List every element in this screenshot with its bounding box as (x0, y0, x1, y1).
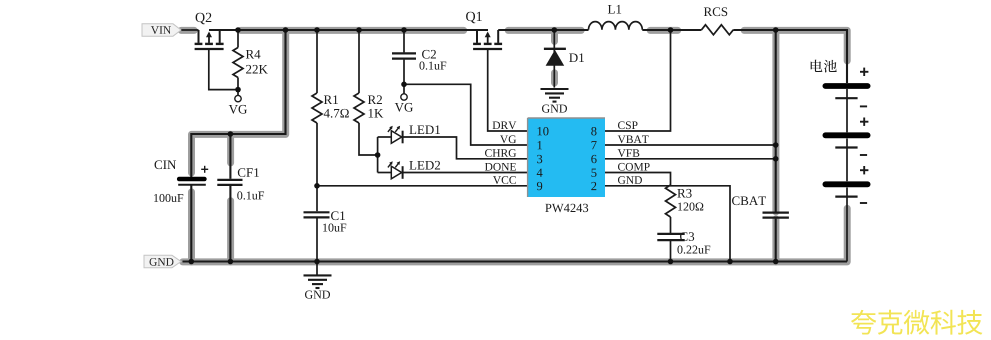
wire CSP pin 8 to switch node (605, 30, 671, 131)
polarity + CIN (201, 166, 208, 173)
pin 7 VBAT (618, 135, 649, 143)
VBAT column black (775, 30, 777, 212)
resistor R3 (666, 185, 676, 233)
battery polarity marks (860, 68, 869, 203)
wire LED2 cathode to DONE pin 4 (403, 172, 528, 174)
label CIN (155, 160, 177, 169)
wire VG net C2 to pin 1 (404, 84, 528, 145)
battery cells (825, 86, 867, 197)
wire to LED2 anode (378, 172, 392, 174)
wire RCS to battery + (733, 30, 847, 83)
label VG (C2) (395, 103, 413, 112)
LED LED2 (388, 161, 403, 179)
label CBAT (732, 196, 766, 205)
label L1 (608, 5, 621, 14)
capacitor CBAT plates (763, 213, 789, 218)
diode D1 (544, 49, 566, 66)
wire highlight: GND rail + battery bottom (183, 208, 848, 262)
pin stub to VG terminal C2 (403, 84, 405, 93)
capacitor C3 leads (670, 240, 672, 261)
LED LED1 (388, 126, 403, 144)
label LED2 (409, 161, 440, 170)
resistor R1 (312, 30, 322, 186)
label R4 (246, 50, 261, 59)
pin 6 VFB (618, 149, 640, 157)
label R3 (677, 189, 691, 198)
wire LED anode column (377, 137, 379, 173)
wire to LED1 anode (378, 136, 392, 138)
label C2 (422, 50, 436, 59)
capacitor CF1 plates (217, 180, 242, 185)
label CF1 (238, 168, 259, 177)
transistor Q2 (195, 30, 224, 49)
label VG (Q2) (229, 105, 247, 114)
label C3 (680, 232, 694, 241)
wire D1 column (553, 30, 555, 88)
wire highlight: VBAT column / CBAT (772, 30, 779, 212)
wire COMP pin 5 to R3 (605, 173, 671, 186)
wire highlight: RCS to battery + (744, 30, 847, 61)
value 1K (369, 109, 384, 118)
pin stub to VG terminal Q2 (237, 90, 239, 96)
value 0.1uF C2 (419, 62, 446, 70)
wire highlight: switch node Q1-L1 (508, 27, 581, 34)
wire GND pin 2 to ground rail (605, 186, 730, 262)
wire VBAT pin 7 to battery + (605, 144, 776, 146)
pin 5 COMP (618, 163, 650, 171)
capacitor C2 plates (392, 53, 416, 58)
wire Q2 drain along top rail to Q1 (209, 29, 488, 31)
wire gate Q2 to VG node (209, 49, 238, 90)
wire highlight: VIN stub (181, 27, 194, 34)
value 120ohm (678, 203, 703, 211)
wire highlight: D1 stubs (551, 31, 558, 41)
GND rail (183, 260, 848, 262)
label GND at D1 (542, 105, 567, 113)
net tag VIN (142, 24, 181, 36)
pin 9 VCC (493, 176, 516, 184)
label GND at C1 (305, 291, 330, 299)
battery internal connections (846, 60, 848, 83)
resistor RCS body (702, 25, 734, 35)
op-amp U1 PW4243 body (528, 118, 605, 197)
wire VIN to Q2 source (181, 29, 199, 31)
wire VFB pin 6 to battery + (605, 158, 776, 160)
wire VCC net R1/C1 to pin 9 (317, 185, 528, 187)
node VG terminal (C2) (401, 94, 407, 100)
pin 2 GND (618, 176, 642, 184)
label LED1 (409, 125, 440, 134)
label C1 (331, 211, 345, 220)
ground symbol at C1 (304, 262, 332, 289)
label R1 (324, 95, 338, 104)
transistor Q1 (473, 30, 502, 49)
pin 10 DRV (493, 121, 517, 129)
label Q1 (466, 12, 482, 24)
net tag GND (144, 255, 181, 267)
capacitor CIN plates (178, 179, 206, 185)
value 4.7ohm (324, 109, 349, 118)
pin 3 CHRG (485, 149, 516, 157)
pin 8 CSP (618, 121, 638, 129)
wire L1 to RCS (642, 29, 701, 31)
wire Q1 gate to DRV pin 10 (488, 49, 528, 131)
label D1 (569, 53, 584, 62)
capacitor C1 leads (316, 186, 318, 211)
watermark text (851, 310, 982, 335)
wire highlight: input branch to CIN/CF1 (192, 30, 286, 173)
input branch black (191, 30, 285, 178)
value 22K (246, 65, 268, 74)
ground symbol at D1 (541, 89, 569, 102)
wire LED1 cathode to CHRG pin 3 (403, 137, 528, 159)
wire Q1 source extension (464, 29, 489, 31)
value 0.1uF CF1 (237, 191, 264, 199)
label Q2 (196, 13, 212, 25)
wire highlight: top rail Q2-Q1 (241, 27, 464, 34)
label PW4243 (545, 204, 588, 212)
pin 1 VG (500, 135, 516, 143)
resistor R2 (354, 30, 378, 155)
pin 4 DONE (485, 163, 516, 171)
label RCS (704, 7, 727, 16)
capacitor C1 plates (304, 212, 330, 217)
capacitor C2 leads (403, 30, 405, 52)
label battery (dianchi) (811, 60, 837, 73)
wire Q1 drain to L1 (498, 29, 588, 31)
value 100uF (154, 194, 183, 202)
capacitor C3 plates (657, 234, 684, 240)
inductor L1 (589, 22, 643, 30)
value 10uF (323, 224, 346, 232)
value 0.22uF (677, 246, 710, 254)
label R2 (368, 95, 382, 104)
wire highlight: L1-RCS (650, 27, 678, 34)
resistor R4 (233, 30, 243, 90)
node VG terminal (Q2 gate) (235, 95, 241, 101)
